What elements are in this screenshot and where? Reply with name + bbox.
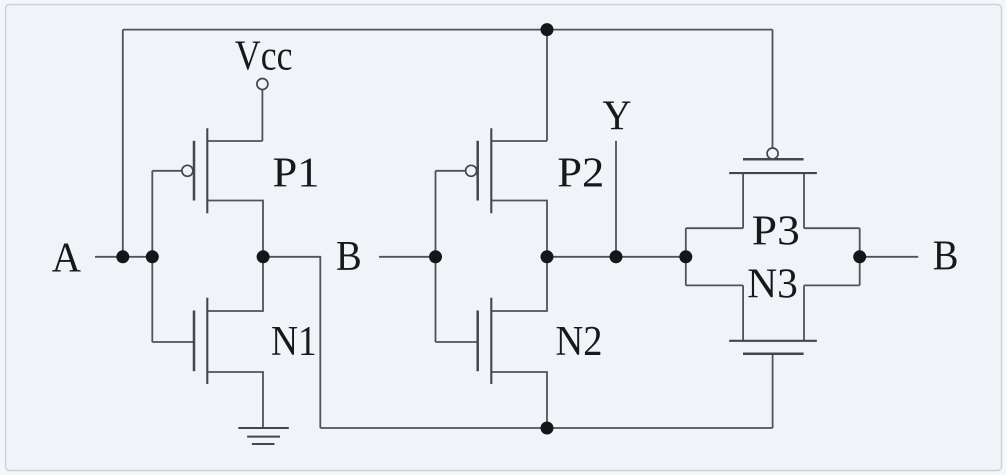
wire inverter1 input vertical xyxy=(151,171,153,342)
svg-text:P1: P1 xyxy=(273,151,320,197)
wire P2 gate lead xyxy=(436,170,466,172)
wire N2 source lead down to bottom rail xyxy=(491,372,547,428)
svg-text:N2: N2 xyxy=(556,319,603,365)
wire N2 gate lead xyxy=(436,341,478,343)
wire top rail xyxy=(123,29,773,31)
ground xyxy=(238,428,288,444)
svg-text:N3: N3 xyxy=(747,262,798,308)
wire Y vertical xyxy=(615,141,617,257)
wire tgate lower-left horizontal xyxy=(686,284,743,286)
wire N1 source lead to ground xyxy=(207,372,263,428)
wire Vcc stub xyxy=(261,90,263,141)
wire P3 right lead xyxy=(803,173,805,228)
wire tgate upper-right horizontal xyxy=(804,227,860,229)
svg-text:B: B xyxy=(933,234,959,280)
node junction dot output1 xyxy=(257,250,270,263)
transistor N1 channel bar xyxy=(206,298,208,384)
wire N3 gate down to bottom rail xyxy=(772,354,774,428)
wire P2 drain lead down to output node xyxy=(491,201,547,257)
node junction dot output2 xyxy=(541,250,554,263)
transistor P1 gate bar xyxy=(193,141,196,201)
node junction dot bottom rail xyxy=(541,422,554,435)
wire P3 left lead xyxy=(742,173,744,228)
wire inverter2 input vertical xyxy=(435,171,437,342)
wire tgate upper-left horizontal xyxy=(686,227,743,229)
transistor N3 channel bar xyxy=(729,340,817,342)
node junction dot tgate right xyxy=(853,250,866,263)
node junction dot A1 xyxy=(116,250,129,263)
wire left vertical from top rail to node A xyxy=(122,30,124,257)
wire tgate left node vertical xyxy=(685,228,687,285)
wire P1 drain lead down to output node xyxy=(207,201,263,257)
wire P2 source lead xyxy=(491,140,547,142)
wire P1 source up xyxy=(261,140,263,142)
wire tgate lower-right horizontal xyxy=(804,284,860,286)
svg-text:A: A xyxy=(52,236,82,282)
wire bottom rail xyxy=(320,427,772,429)
P3 gate bubble xyxy=(767,148,778,159)
node junction dot tgate left xyxy=(679,250,692,263)
P1 gate bubble xyxy=(182,165,193,176)
wire A input lead xyxy=(95,256,152,258)
transistor N3 gate bar xyxy=(743,352,804,355)
wire output2 to transmission gate xyxy=(547,256,686,258)
wire N1 drain lead up to output node xyxy=(207,257,263,311)
transistor N2 gate bar xyxy=(476,311,479,372)
wire tgate right node to B xyxy=(860,256,919,258)
wire top rail to P2 source xyxy=(546,30,548,141)
wire N1 gate lead xyxy=(152,341,194,343)
svg-text:Y: Y xyxy=(603,94,632,140)
P2 gate bubble xyxy=(466,165,477,176)
transistor N1 gate bar xyxy=(193,311,196,372)
wire N3 left lead xyxy=(742,285,744,340)
svg-text:B: B xyxy=(336,234,362,280)
Vcc terminal circle xyxy=(257,79,268,90)
node junction dot Y xyxy=(610,250,623,263)
node junction dot B input xyxy=(429,250,442,263)
wire B input lead xyxy=(379,256,436,258)
wire output1 to bottom rail xyxy=(263,257,320,428)
wire top rail right vertical to P3 gate bubble xyxy=(772,30,774,148)
transistor P2 gate bar xyxy=(476,141,479,201)
transistor N2 channel bar xyxy=(490,298,492,384)
wire N3 right lead xyxy=(803,285,805,340)
wire P1 gate lead xyxy=(152,170,182,172)
transistor P3 gate bar xyxy=(743,158,804,161)
transistor P2 channel bar xyxy=(490,128,492,213)
wire N2 drain lead up xyxy=(491,257,547,311)
wire P1 source lead xyxy=(207,140,262,142)
node junction dot A2 xyxy=(146,250,159,263)
transistor P3 channel bar xyxy=(729,172,817,174)
svg-text:P3: P3 xyxy=(752,209,800,255)
node junction dot top rail xyxy=(541,23,554,36)
svg-text:Vcc: Vcc xyxy=(235,34,293,80)
svg-text:N1: N1 xyxy=(271,319,317,365)
wire tgate right node vertical xyxy=(859,228,861,285)
svg-text:P2: P2 xyxy=(557,151,604,197)
transistor P1 channel bar xyxy=(206,128,208,213)
